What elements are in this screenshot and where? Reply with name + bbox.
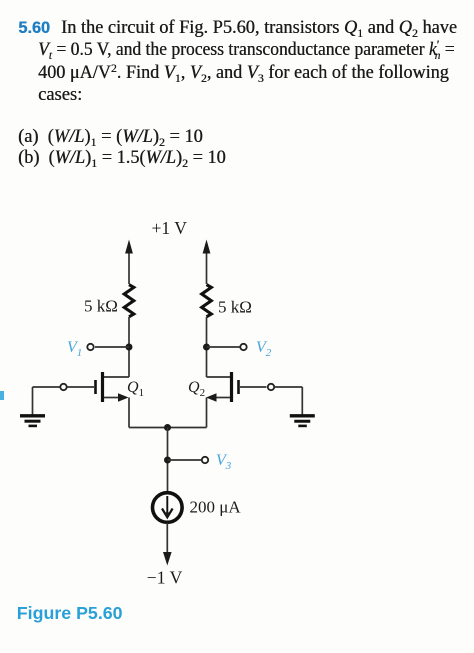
item (a) bbox=[18, 126, 203, 148]
wire: V3 stub bbox=[168, 459, 202, 461]
wire: output line to -1V with down arrow bbox=[163, 523, 172, 566]
wire: tail line bbox=[167, 428, 169, 493]
svg-text:Q1: Q1 bbox=[127, 379, 144, 399]
wire: left drain line bbox=[128, 317, 130, 377]
svg-text:V1: V1 bbox=[67, 339, 82, 359]
problem number 5.60 bbox=[18, 17, 50, 39]
svg-text:Q2: Q2 bbox=[188, 379, 205, 399]
wire: Q1 gate lead with terminal bbox=[33, 386, 95, 388]
page-edge blue mark bbox=[0, 391, 4, 400]
resistor R1 5kOhm (left) bbox=[124, 285, 134, 317]
wire: V1 stub bbox=[95, 346, 129, 348]
node: source rail junction dot bbox=[164, 424, 171, 431]
node V3 junction dot bbox=[164, 457, 171, 464]
wire: common source rail bbox=[129, 427, 207, 429]
transistor Q1 (NMOS) bbox=[96, 372, 130, 428]
svg-text:5 kΩ: 5 kΩ bbox=[84, 297, 118, 316]
svg-text:V3: V3 bbox=[216, 452, 232, 472]
terminal: Q1 gate open circle bbox=[60, 384, 66, 390]
ground (left) bbox=[20, 416, 45, 426]
svg-text:V2: V2 bbox=[256, 339, 272, 359]
ground (right) bbox=[290, 416, 315, 426]
text line 4 bbox=[38, 84, 82, 106]
text line 3 bbox=[38, 62, 449, 84]
svg-text:200 μA: 200 μA bbox=[190, 498, 242, 517]
svg-text:5 kΩ: 5 kΩ bbox=[218, 298, 252, 317]
item (b) bbox=[18, 147, 226, 169]
transistor Q2 (NMOS, mirrored) bbox=[206, 372, 239, 428]
terminal: Q2 gate open circle bbox=[268, 384, 274, 390]
current source I 200uA bbox=[153, 493, 183, 523]
svg-text:+1 V: +1 V bbox=[152, 218, 188, 238]
svg-text:−1 V: −1 V bbox=[147, 568, 183, 588]
wire: right supply line with up arrow bbox=[203, 240, 211, 285]
resistor R2 5kOhm (right) bbox=[202, 285, 212, 317]
figure caption bbox=[17, 605, 123, 622]
wire: Q2 gate lead with terminal bbox=[240, 386, 302, 388]
node V2 junction dot bbox=[203, 344, 210, 351]
terminal V2 open circle bbox=[240, 344, 246, 350]
node V1 junction dot bbox=[126, 344, 133, 351]
terminal V3 open circle bbox=[202, 457, 208, 463]
terminal V1 open circle bbox=[87, 344, 93, 350]
text line 1 bbox=[61, 17, 457, 39]
wire: left supply line with up arrow bbox=[125, 240, 133, 285]
text line 2 bbox=[38, 39, 455, 62]
wire: right ground lead bbox=[301, 387, 303, 415]
wire: V2 stub bbox=[207, 346, 241, 348]
wire: right drain line bbox=[206, 317, 208, 377]
wire: left ground lead bbox=[32, 387, 34, 415]
